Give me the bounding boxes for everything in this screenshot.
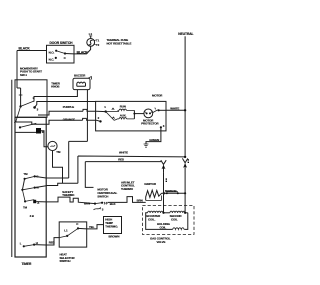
svg-text:N.O.: N.O. [49,50,55,54]
heat selector switch [59,222,86,263]
timer contact group 2 [21,172,46,191]
svg-text:COIL: COIL [171,217,178,221]
disconnect pair right (neutral) [182,158,189,193]
svg-text:TM: TM [23,206,28,210]
high temp thermostat [104,217,122,239]
svg-text:NEUTRAL: NEUTRAL [178,32,193,36]
motor centrifugal switch [84,188,118,212]
timer contact L-H (heat) [20,241,38,248]
svg-text:IGNITOR: IGNITOR [144,182,156,186]
timer internal contact group 1 (motor feed) [14,106,82,133]
booster coil [146,193,185,221]
svg-text:T1: T1 [96,38,100,42]
svg-text:BLACK: BLACK [19,46,31,50]
svg-text:THERMO: THERMO [62,193,75,197]
gas control valve dashed box [142,206,194,244]
svg-text:L1: L1 [64,229,68,233]
air inlet control thermostat [121,180,143,202]
svg-text:T2: T2 [96,43,100,47]
svg-text:WHITE: WHITE [170,107,179,111]
wire RED timer to heat selector [34,238,59,245]
svg-text:NOT RESETTABLE: NOT RESETTABLE [107,41,132,45]
svg-text:THERMO: THERMO [121,187,134,191]
wire RED heater feed [85,157,161,161]
motor protector [141,108,166,129]
timer contact group 3 [22,190,46,218]
wire YEL heat selector to high temp thermostat [78,225,104,229]
svg-text:THERMO.: THERMO. [105,224,118,228]
svg-text:BRN: BRN [137,199,143,203]
svg-text:YEL: YEL [89,225,95,229]
svg-text:TIMER: TIMER [22,262,33,266]
wire GREEN motor ground [146,127,161,144]
second coil [170,211,188,221]
svg-text:L1: L1 [89,32,93,36]
ignitor [144,182,161,200]
wire M-contact to timer motor TM [41,131,48,147]
svg-text:BLACK: BLACK [77,50,89,54]
svg-text:BUZZER: BUZZER [74,73,86,77]
svg-text:BROWN: BROWN [109,234,120,238]
svg-text:SWITCH: SWITCH [60,259,71,263]
svg-text:RED: RED [49,241,55,245]
wire timer A to safety thermostat [35,176,47,178]
wire red stub [85,162,93,188]
wire BLACK door switch to thermal fuse [65,46,91,54]
wire PURPLE timer to motor run [38,105,106,115]
sensor [162,189,187,194]
svg-text:RUN: RUN [120,104,126,108]
wire BLACK L1 feed top-left [17,46,47,106]
svg-text:RED: RED [118,157,124,161]
wire WHITE motor to neutral [166,107,186,112]
wire TM to white line [53,151,63,184]
svg-text:ORANGE: ORANGE [63,118,75,122]
door switch SW [47,41,75,63]
svg-text:GREEN: GREEN [149,138,159,142]
wire WHITE to neutral junction [46,151,186,186]
push-to-start switch box [12,80,47,257]
svg-text:COIL.: COIL. [148,217,156,221]
motor internal switch and windings [98,104,144,122]
ground chassis [144,144,149,147]
svg-text:MOTOR: MOTOR [152,94,163,98]
disconnect pair left [161,160,167,193]
bus wire buzzer/motor/timer-B [46,141,87,178]
svg-text:SW-1: SW-1 [20,73,27,77]
svg-text:BRN: BRN [84,202,90,206]
holding coil [146,213,188,230]
label MOMENTARY PUSH TO START [20,66,42,77]
timer box T1 [15,117,46,265]
node NEUTRAL [178,32,193,157]
label TIMER KNOB [51,81,61,88]
svg-text:4 B: 4 B [30,214,34,218]
timer motor TM [48,141,61,154]
thermal fuse F1 [87,32,132,47]
svg-text:TM: TM [56,150,61,154]
svg-text:KNOB: KNOB [51,85,59,89]
svg-text:PURPLE: PURPLE [63,105,74,109]
wire push-start to buzzer [34,90,77,101]
wire ORANGE timer to motor aux [63,118,101,122]
wire to air inlet thermostat [108,197,146,203]
svg-text:TM: TM [23,172,28,176]
svg-text:DOOR SWITCH: DOOR SWITCH [50,41,74,45]
buzzer BZ [73,73,92,89]
svg-text:COIL: COIL [160,226,167,230]
wire buzzer right leg to bus [86,90,88,142]
wire push-start to motor (line A) [35,102,96,108]
svg-text:PROTECTOR: PROTECTOR [141,122,159,126]
svg-text:AUX.: AUX. [120,113,127,117]
svg-text:N.C.: N.C. [49,58,55,62]
svg-text:VALVE: VALVE [157,240,166,244]
motor box M1 [96,94,166,131]
safety thermostat [62,190,75,197]
svg-text:WHITE: WHITE [119,151,128,155]
svg-text:SWITCH: SWITCH [97,194,108,198]
